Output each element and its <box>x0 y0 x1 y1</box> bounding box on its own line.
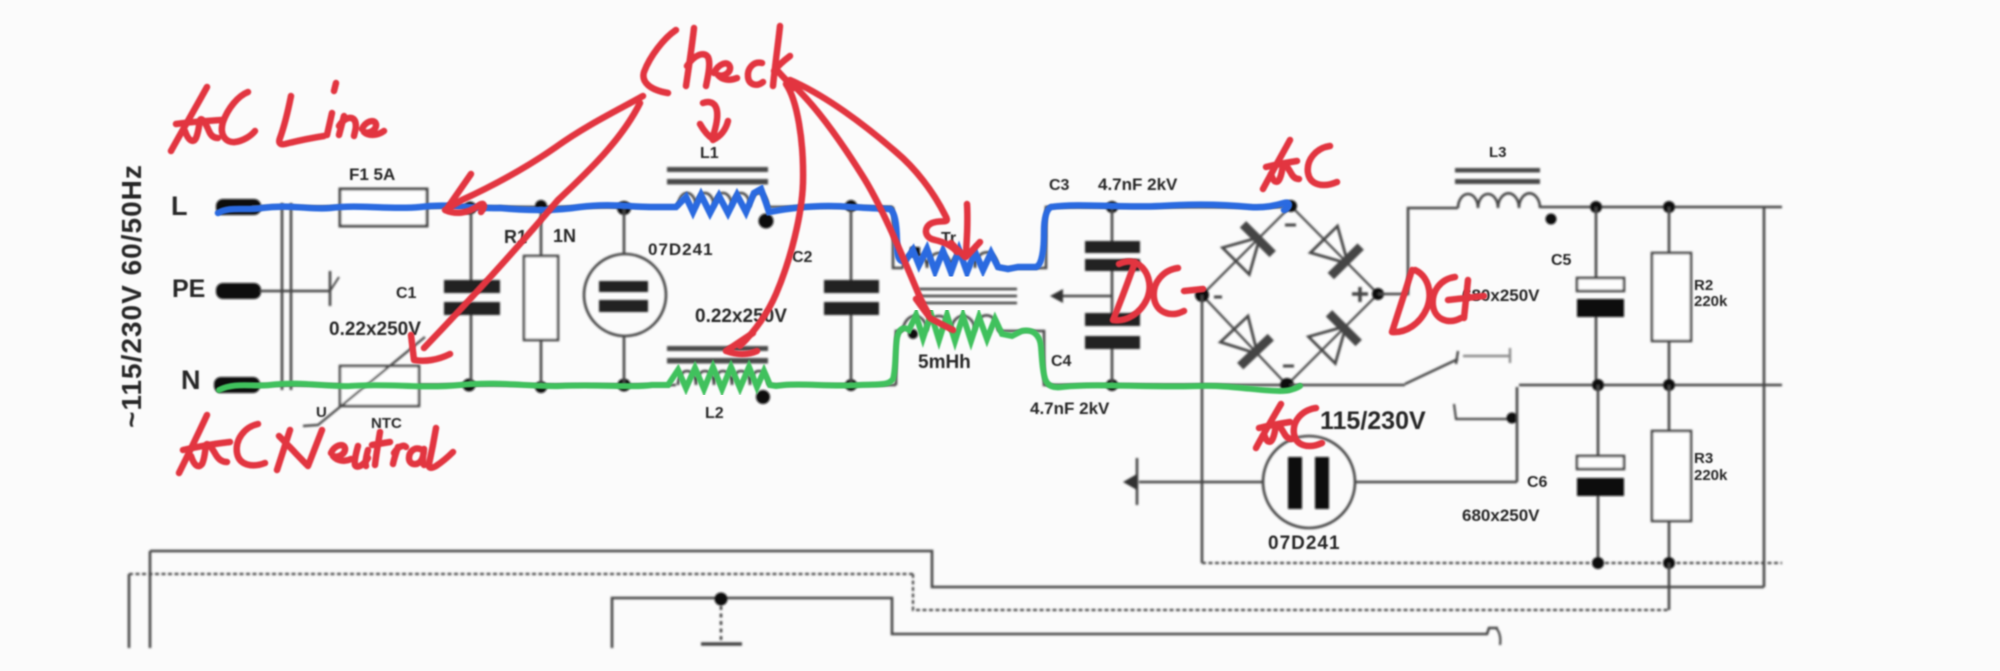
svg-text:4.7nF 2kV: 4.7nF 2kV <box>1030 399 1110 418</box>
svg-text:220k: 220k <box>1694 293 1728 310</box>
svg-text:0.22x250V: 0.22x250V <box>329 319 421 340</box>
svg-text:L1: L1 <box>700 145 719 162</box>
svg-text:L: L <box>171 191 188 221</box>
svg-text:U: U <box>316 404 327 421</box>
svg-text:220k: 220k <box>1694 467 1728 484</box>
svg-text:L2: L2 <box>705 405 724 422</box>
svg-text:~115/230V 60/50Hz: ~115/230V 60/50Hz <box>116 164 147 428</box>
svg-text:07D241: 07D241 <box>648 240 714 259</box>
svg-text:5mHh: 5mHh <box>918 352 971 373</box>
svg-text:0.22x250V: 0.22x250V <box>695 306 787 327</box>
svg-text:C5: C5 <box>1551 252 1572 269</box>
svg-text:PE: PE <box>172 275 205 303</box>
svg-text:115/230V: 115/230V <box>1320 407 1426 435</box>
svg-text:4.7nF 2kV: 4.7nF 2kV <box>1098 175 1178 194</box>
svg-text:07D241: 07D241 <box>1268 533 1341 554</box>
svg-text:F1 5A: F1 5A <box>349 165 395 184</box>
svg-text:C2: C2 <box>792 249 813 266</box>
svg-text:L3: L3 <box>1489 144 1507 161</box>
svg-text:R2: R2 <box>1694 277 1713 294</box>
svg-text:C3: C3 <box>1049 177 1070 194</box>
svg-text:C6: C6 <box>1527 474 1548 491</box>
svg-text:680x250V: 680x250V <box>1462 506 1540 525</box>
svg-text:1N: 1N <box>553 226 576 246</box>
svg-text:R3: R3 <box>1694 450 1713 467</box>
svg-text:C4: C4 <box>1051 353 1072 370</box>
svg-text:N: N <box>181 365 201 395</box>
svg-text:C1: C1 <box>396 285 417 302</box>
svg-text:NTC: NTC <box>371 415 402 432</box>
